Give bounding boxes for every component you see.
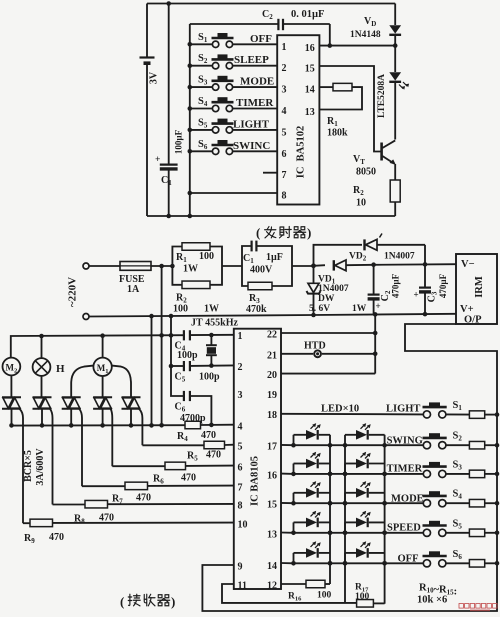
resistor R12 10k: [469, 470, 497, 478]
label 0.01uF (C2 value): [291, 9, 324, 20]
label V+ (IRM pin): [460, 304, 474, 315]
svg-text:13: 13: [267, 530, 277, 541]
svg-text:SWING: SWING: [387, 436, 423, 447]
label S3: [198, 75, 208, 87]
wire VD to LED: [394, 46, 396, 72]
pin 15 wire to VT base: [319, 66, 381, 152]
pin 8 wire to bus: [188, 191, 278, 196]
node: H lamp rail junction: [39, 334, 44, 339]
svg-text:R1: R1: [176, 252, 187, 264]
svg-text:MODE: MODE: [391, 494, 424, 505]
L-drop wire (fuse to load rail): [161, 266, 163, 425]
label 470uF (C2 value, rotated): [391, 273, 401, 298]
label 1W (R1 RX): [183, 264, 198, 275]
N-drop wire (neutral to triac rail): [151, 316, 153, 425]
svg-text:V−: V−: [461, 259, 475, 270]
svg-text:180k: 180k: [327, 128, 348, 139]
zener diode DW 5.6V 1W: [307, 266, 321, 315]
IRM receiver module box: [456, 254, 497, 324]
label 400V (C1 RX): [250, 265, 273, 276]
label O/P (IRM pin): [464, 315, 482, 326]
resistor R2 100 1W (parallel bottom): [172, 266, 222, 289]
svg-text:100p: 100p: [177, 350, 198, 361]
label S6 (RX): [453, 549, 463, 561]
svg-text:9: 9: [238, 562, 243, 573]
svg-text:21: 21: [267, 350, 277, 361]
label C2: [262, 9, 273, 21]
node: N/DW junction: [311, 313, 316, 318]
switch S4 pushbutton: [188, 97, 278, 112]
svg-text:1A: 1A: [127, 284, 140, 295]
svg-text:5. 6V: 5. 6V: [309, 304, 330, 314]
svg-text:R4: R4: [177, 431, 188, 443]
label JT 455kHz: [191, 318, 239, 329]
label 1uF (C1 RX value): [266, 252, 283, 263]
svg-text:V+: V+: [460, 304, 474, 315]
wire bus to C2: [190, 23, 278, 25]
resistor R14 10k: [469, 529, 497, 537]
switch S2 pushbutton: [188, 54, 278, 68]
svg-text:12: 12: [267, 581, 277, 592]
label SLEEP (S2 function): [234, 54, 269, 66]
label SPEED: [387, 523, 421, 534]
svg-text:DW: DW: [318, 294, 335, 304]
battery label 3V: [149, 71, 160, 84]
caption (fa-she-qi) transmitter: [256, 225, 311, 240]
LED matrix column B (to R17): [384, 435, 386, 604]
label S3 (RX): [453, 459, 463, 471]
pin 6 number (TX IC): [282, 149, 287, 160]
node A (rectifier input): [311, 263, 316, 268]
svg-text:4: 4: [282, 106, 287, 117]
svg-text:H: H: [56, 363, 65, 375]
svg-text:S1: S1: [198, 32, 208, 44]
capacitor C5 100p / pin 2 row: [171, 361, 234, 371]
node: R13/bus junction: [495, 501, 500, 506]
label 100 (R16 value): [317, 591, 332, 601]
svg-text:R9: R9: [24, 533, 35, 545]
label S5: [198, 117, 208, 129]
node: L-drop/triac-rail junction: [159, 423, 164, 428]
label IC BA8105 (rotated): [250, 456, 261, 506]
svg-text:3: 3: [282, 85, 287, 96]
svg-text:(: (: [256, 225, 260, 240]
svg-text:8050: 8050: [356, 167, 376, 178]
resistor R7 470 row (gate of BCR3): [82, 482, 234, 490]
svg-text:16: 16: [267, 470, 277, 481]
label R10~R15 group: [419, 583, 457, 598]
pin 22 number (RX IC right): [267, 330, 277, 341]
transmitter bottom rail: [147, 215, 395, 217]
svg-text:13: 13: [305, 107, 315, 118]
pin 13 number (TX IC): [305, 107, 315, 118]
switch S3 pushbutton: [188, 76, 278, 91]
wire O/P output path: [202, 324, 497, 611]
svg-text:SLEEP: SLEEP: [234, 54, 269, 66]
LED matrix column A (to R16): [329, 435, 331, 584]
svg-text:LIGHT: LIGHT: [233, 118, 270, 130]
svg-text:3: 3: [238, 390, 243, 401]
pin 14 number (TX IC): [305, 85, 315, 96]
node: resonator/pin2 junction: [209, 363, 214, 368]
transmitter left rail upper (battery +): [146, 4, 148, 57]
LED row pin 17 (SWING) with 2 LEDs: [281, 423, 423, 447]
label R8: [74, 514, 85, 526]
label VD: [364, 16, 376, 28]
svg-text:100: 100: [317, 591, 332, 601]
svg-text:): ): [171, 594, 175, 609]
svg-text:0. 01µF: 0. 01µF: [291, 9, 324, 20]
svg-text:IC BA8105: IC BA8105: [250, 456, 261, 506]
svg-text:OFF: OFF: [398, 554, 419, 565]
capacitor C6 4700p: [184, 391, 212, 425]
label 470 (R4 value): [201, 430, 216, 441]
label 8050 (VT value): [356, 167, 376, 178]
pin 15 number (RX IC right): [267, 500, 277, 511]
label S1 (RX): [453, 400, 463, 412]
LED matrix column C: [344, 445, 346, 603]
svg-text:15: 15: [267, 500, 277, 511]
pin 16 wire: [319, 45, 395, 47]
svg-text:3V: 3V: [149, 71, 160, 84]
resistor R1 100 1W (parallel top): [172, 243, 222, 266]
triac BCR1: [2, 397, 23, 523]
capacitor C3 470uF (RX): [414, 264, 432, 314]
column A row crossings: [328, 472, 333, 566]
label LIGHT (S5 function): [233, 118, 270, 130]
label R7: [112, 494, 123, 506]
label OFF: [398, 554, 419, 565]
label 1W (DW): [352, 304, 367, 314]
label R17: [355, 583, 369, 594]
svg-text:LTE5208A: LTE5208A: [377, 74, 387, 118]
label IC BA5102 (rotated): [296, 126, 307, 179]
svg-text:1: 1: [238, 331, 243, 342]
pin 11 wrap wire: [222, 584, 357, 603]
svg-text:R6: R6: [153, 474, 164, 486]
resistor R8 470 row (gate of BCR2): [53, 500, 234, 508]
resistor R1 180k: [319, 83, 362, 109]
pin 8 number (RX IC): [238, 501, 243, 512]
diode VD 1N4148: [389, 4, 401, 46]
label ~220V (rotated): [67, 277, 79, 307]
node: bus bottom junction: [188, 214, 193, 219]
svg-text:+: +: [376, 301, 381, 311]
label H: [56, 363, 65, 375]
LED row pin 13 (SPEED) with 2 LEDs: [281, 511, 423, 535]
svg-text:O/P: O/P: [464, 315, 482, 326]
label 1N4007 (VD2 value): [384, 252, 415, 262]
label 100 (R17 value): [355, 592, 370, 602]
node: R10/bus junction: [495, 412, 500, 417]
node: C1 bottom junction: [166, 214, 171, 219]
pin 14 number (RX IC right): [267, 561, 277, 572]
node: riser/pin22 junction: [373, 331, 378, 336]
pin 3 number (TX IC): [282, 85, 287, 96]
switch S5 pushbutton: [188, 119, 278, 133]
capacitor bus wire (N to C4 C5 C6): [171, 316, 184, 396]
label 100p (C4 value): [177, 350, 198, 361]
svg-text:S5: S5: [453, 518, 463, 530]
node: resonator/pin1 junction: [209, 333, 214, 338]
svg-text:S3: S3: [453, 459, 463, 471]
transistor VT 8050: [382, 140, 396, 180]
label LED x10: [321, 404, 359, 415]
label 100p (C5 value): [199, 372, 220, 383]
svg-text:8: 8: [238, 501, 243, 512]
label 4700p (C6 value): [180, 413, 206, 424]
label IRM (rotated): [474, 276, 485, 298]
svg-text:5: 5: [282, 127, 287, 138]
label VD1: [318, 275, 336, 286]
svg-text:100: 100: [355, 592, 370, 602]
svg-text:100: 100: [173, 304, 188, 315]
pin 7 number (RX IC): [238, 482, 243, 493]
pin 6 number (RX IC): [238, 462, 243, 473]
pin 20 wire: [281, 373, 375, 375]
label 470 (R6 value): [181, 473, 196, 484]
label LIGHT: [386, 404, 420, 415]
label C1: [161, 175, 172, 187]
resistor R9 470 row (gate of BCR1): [23, 519, 234, 527]
svg-text:14: 14: [305, 85, 315, 96]
label 1W (R2 RX): [204, 304, 219, 315]
svg-text:TIMER: TIMER: [387, 464, 423, 475]
transmitter left rail lower: [146, 65, 148, 216]
pin 20 number (RX IC right): [267, 370, 277, 381]
svg-text:100p: 100p: [199, 372, 220, 383]
label S2 (RX): [453, 431, 463, 443]
capacitor C1 line upper: [168, 4, 170, 164]
pin 2 number (RX IC): [238, 362, 243, 373]
svg-text:C2: C2: [262, 9, 273, 21]
label S5 (RX): [453, 518, 463, 530]
pin 19 number (RX IC right): [267, 390, 277, 401]
label R3 (RX): [249, 293, 260, 305]
label R4: [177, 431, 188, 443]
svg-text:JT 455kHz: JT 455kHz: [191, 318, 239, 329]
svg-text:6: 6: [282, 149, 287, 160]
label MODE (S3 function): [240, 76, 274, 88]
label VD2: [349, 252, 367, 263]
svg-text:18: 18: [267, 410, 277, 421]
svg-text:1µF: 1µF: [266, 252, 283, 263]
svg-text:8: 8: [282, 191, 287, 202]
svg-text:10k ×6: 10k ×6: [417, 595, 447, 606]
resistor R13 10k: [469, 499, 497, 507]
svg-text:S5: S5: [198, 117, 208, 129]
switch S6 pushbutton: [188, 140, 278, 155]
node: N/cap-bus junction: [169, 314, 174, 319]
svg-text:VT: VT: [353, 154, 365, 166]
pin 13 number (RX IC right): [267, 530, 277, 541]
label VT: [353, 154, 365, 166]
svg-text:R16: R16: [288, 592, 302, 603]
label S1: [198, 32, 208, 44]
svg-text:470: 470: [49, 532, 64, 543]
pin 4 number (TX IC): [282, 106, 287, 117]
svg-text:3A/600V: 3A/600V: [35, 448, 46, 486]
switch S2 (RX): [423, 433, 470, 449]
switch S4 (RX): [423, 491, 470, 507]
pin 4 number (RX IC): [238, 421, 243, 432]
node: R15/bus junction: [495, 561, 500, 566]
watermark (red): [459, 604, 497, 612]
svg-text:VD: VD: [364, 16, 376, 28]
svg-text:470: 470: [99, 513, 114, 524]
svg-text:19: 19: [267, 390, 277, 401]
LED row pin 16 (TIMER) with 2 LEDs: [281, 452, 423, 476]
node: N/N-drop junction: [149, 314, 154, 319]
pin 7 stub wire: [263, 172, 277, 174]
svg-text:10: 10: [238, 520, 248, 531]
resistor R3 470k (parallel bottom): [242, 266, 292, 290]
label C5: [175, 372, 186, 384]
pin 3 number (RX IC): [238, 390, 243, 401]
label 1A (fuse value): [127, 284, 140, 295]
battery B 3V: [140, 58, 155, 64]
label HTD: [304, 341, 326, 352]
svg-text:IC BA5102: IC BA5102: [296, 126, 307, 179]
pin 16 number (RX IC right): [267, 470, 277, 481]
node: riser/pin21 junction: [373, 352, 378, 357]
svg-text:470µF: 470µF: [438, 273, 448, 298]
label MODE: [391, 494, 424, 505]
svg-text:OFF: OFF: [250, 33, 272, 45]
svg-text:1W: 1W: [183, 264, 198, 275]
label LTE5208A (rotated): [377, 74, 387, 118]
node: N-drop/triac-rail junction: [149, 423, 154, 428]
switch S1 (RX): [423, 402, 447, 418]
load rail / pin 1 row: [11, 335, 234, 358]
label S4 (RX): [453, 489, 463, 501]
resistor R16 100 (pin 12): [281, 580, 330, 588]
capacitor C1 100uF electrolytic: [155, 155, 178, 169]
motor M2 (swing): [3, 358, 21, 397]
label OFF (S1 function): [250, 33, 272, 45]
svg-text:400V: 400V: [250, 265, 273, 276]
svg-text:17: 17: [267, 442, 277, 453]
svg-text:6: 6: [238, 462, 243, 473]
svg-text:S2: S2: [198, 53, 208, 65]
label 10 (R2 value): [356, 198, 366, 209]
pin 21 number (RX IC right): [267, 350, 277, 361]
capacitor C1 1uF 400V (parallel top): [242, 241, 292, 266]
wire C2 to pin16 riser: [284, 24, 330, 46]
node: N/C3 junction: [423, 312, 428, 317]
svg-text:100µF: 100µF: [174, 129, 184, 154]
pin 5 number (TX IC): [282, 127, 287, 138]
node: R1R2 left node: [170, 264, 175, 269]
node: M1 rail junction: [100, 333, 105, 338]
svg-text:470µF: 470µF: [391, 273, 401, 298]
svg-text:470k: 470k: [246, 304, 267, 315]
transmitter outer frame top rail: [147, 3, 395, 5]
pin 15 number (TX IC): [305, 64, 315, 75]
svg-text:470: 470: [136, 493, 151, 504]
svg-text:C1: C1: [161, 175, 172, 187]
label BCR x5 (rotated): [23, 450, 34, 482]
node: R12/bus junction: [495, 472, 500, 477]
svg-text:+: +: [414, 290, 419, 300]
label SWING: [387, 436, 423, 447]
IC U2 BA8105 body: [234, 329, 281, 589]
label FUSE: [119, 274, 145, 285]
node: R14/bus junction: [495, 531, 500, 536]
label 470 (R7 value): [136, 493, 151, 504]
node: bus/C5-row junction: [169, 364, 174, 369]
label 180k (R1 value): [327, 128, 348, 139]
svg-text:HTD: HTD: [304, 341, 326, 352]
LED VL LTE5208A: [389, 72, 409, 139]
label 470uF (C3 value, rotated): [438, 273, 448, 298]
svg-text:7: 7: [282, 170, 287, 181]
node: pin16/VD junction: [393, 43, 398, 48]
wire M1 left tap to triac BCR3: [71, 366, 93, 397]
pin 5 number (RX IC): [238, 442, 243, 453]
resistor R6 470 row (gate of BCR4): [112, 462, 234, 470]
pin 10 number (RX IC): [238, 520, 248, 531]
svg-text:100: 100: [199, 251, 214, 262]
svg-text:VD2: VD2: [349, 252, 367, 263]
triac rail / pin 4 row with resistor R4 470: [10, 421, 234, 429]
label 1N4007 (VD1 value): [318, 284, 349, 294]
label TIMER (S4 function): [236, 97, 274, 109]
label 100 (R1 RX value): [199, 251, 214, 262]
svg-text:15: 15: [305, 64, 315, 75]
svg-text:11: 11: [238, 581, 247, 592]
svg-text:1N4148: 1N4148: [350, 30, 381, 40]
node: R11/bus junction: [495, 443, 500, 448]
label R1: [327, 116, 338, 128]
caption (jie-shou-qi) receiver: [120, 594, 175, 609]
wire N rail (mains neutral to IRM V+): [89, 314, 456, 317]
terminal: mains L: [83, 263, 89, 269]
svg-text:LIGHT: LIGHT: [386, 404, 420, 415]
diode VD2 1N4007 branch: [314, 234, 426, 266]
svg-text:1W: 1W: [204, 304, 219, 315]
pin 1 number (TX IC): [282, 42, 287, 53]
IC U1 BA5102 body: [277, 35, 319, 204]
pin 18 LIGHT row wire: [281, 413, 469, 416]
pin 7 number (TX IC): [282, 170, 287, 181]
wire V- rail (VD1 out to IRM): [374, 263, 456, 266]
node: pin16/C2 junction: [328, 43, 333, 48]
pin 2 number (TX IC): [282, 63, 287, 74]
svg-text:1: 1: [282, 42, 287, 53]
label TIMER: [387, 464, 423, 475]
label S2: [198, 53, 208, 65]
svg-text:1N4007: 1N4007: [318, 284, 349, 294]
switch S6 (RX): [423, 551, 470, 567]
resistor R10 10k: [469, 411, 497, 419]
pin 22/21/20 riser: [374, 314, 376, 373]
wire M1 right tap to triac BCR5: [112, 366, 131, 397]
pin 17 number (RX IC right): [267, 442, 277, 453]
capacitor C4 100p: [184, 330, 190, 340]
svg-text:C5: C5: [175, 372, 186, 384]
svg-text:R1: R1: [327, 116, 338, 128]
label R9: [24, 533, 35, 545]
svg-text:M2: M2: [6, 363, 18, 375]
label 470 (R5 value): [206, 450, 221, 461]
svg-text:4700p: 4700p: [180, 413, 206, 424]
svg-text:14: 14: [267, 561, 277, 572]
label R16: [288, 592, 302, 603]
svg-text:S6: S6: [198, 139, 208, 151]
label 5.6V (DW value): [309, 304, 330, 314]
resistor R2 10: [390, 180, 400, 216]
